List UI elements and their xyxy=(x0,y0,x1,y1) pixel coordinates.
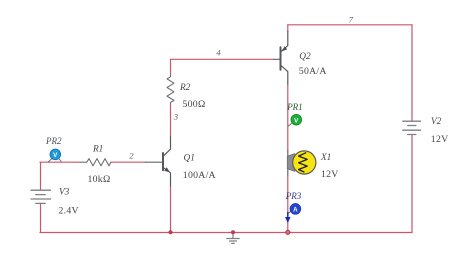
probe PR1 tail xyxy=(288,123,291,126)
transistor Q2 base pin xyxy=(274,58,280,60)
transistor Q2 (PNP) xyxy=(281,32,288,85)
wire V2 top vertical net7 xyxy=(411,25,413,121)
ground xyxy=(227,232,239,243)
probe PR2 tail xyxy=(48,159,52,163)
wire net7 to Q2 emitter pin xyxy=(287,25,289,32)
lamp X1 bulb xyxy=(293,151,316,174)
svg-text:12V: 12V xyxy=(321,169,339,180)
transistor Q1 emitter arrow xyxy=(164,167,170,172)
wire bottom ground rail xyxy=(40,232,412,234)
battery V2 xyxy=(403,121,421,134)
svg-text:R1: R1 xyxy=(92,145,103,155)
transistor Q1 base pin xyxy=(146,161,163,163)
svg-text:2: 2 xyxy=(129,151,134,161)
svg-text:A: A xyxy=(293,206,298,213)
svg-text:4: 4 xyxy=(216,48,221,58)
svg-text:X1: X1 xyxy=(320,153,331,163)
lamp X1 socket xyxy=(287,154,295,172)
svg-text:PR3: PR3 xyxy=(285,191,302,201)
resistor R2 xyxy=(167,75,174,105)
junction lamp / rail xyxy=(286,230,290,234)
svg-text:V2: V2 xyxy=(431,117,442,127)
svg-text:100A/A: 100A/A xyxy=(183,170,216,181)
svg-text:Q2: Q2 xyxy=(299,52,311,62)
svg-text:Q1: Q1 xyxy=(184,153,195,163)
wire V3 bottom to ground rail xyxy=(40,203,42,232)
probe PR3 circle xyxy=(290,204,301,215)
wire net1 left vertical V3 top xyxy=(40,162,42,190)
svg-text:PR1: PR1 xyxy=(286,102,303,112)
probe PR3 current arrow xyxy=(287,213,289,218)
lamp X1 bottom pin xyxy=(287,169,289,176)
wire net4 R2 top to Q2 base xyxy=(171,59,274,75)
svg-text:V3: V3 xyxy=(59,188,70,198)
junction Q1 emitter / rail xyxy=(169,230,173,234)
wire net1 horizontal to R1 xyxy=(40,161,80,163)
probe PR1 circle xyxy=(291,114,302,125)
svg-text:7: 7 xyxy=(349,14,354,24)
probe PR2 circle xyxy=(50,149,61,160)
wire net7 top rail xyxy=(288,24,412,26)
wire Q2 collector to lamp X1 xyxy=(287,84,289,151)
wire lamp X1 to ground rail xyxy=(287,175,289,233)
svg-text:PR2: PR2 xyxy=(45,136,62,146)
svg-text:R2: R2 xyxy=(179,83,191,93)
wire V2 bottom vertical xyxy=(411,135,413,233)
transistor Q2 emitter arrow (points to bar) xyxy=(282,46,287,51)
wire Q1 emitter to ground rail xyxy=(170,186,172,232)
battery V3 xyxy=(31,190,51,203)
junction ground / rail xyxy=(231,230,235,234)
transistor Q1 xyxy=(163,136,171,186)
svg-text:12V: 12V xyxy=(431,134,449,145)
svg-text:3: 3 xyxy=(173,111,179,121)
lamp X1 filament xyxy=(299,153,308,172)
lamp X1 top pin xyxy=(287,151,289,157)
probe PR3 tail xyxy=(288,211,291,214)
svg-text:500Ω: 500Ω xyxy=(183,99,206,110)
svg-text:2.4V: 2.4V xyxy=(59,206,79,217)
svg-text:10kΩ: 10kΩ xyxy=(88,174,111,185)
resistor R1 xyxy=(80,159,111,166)
wire net3 R2 bottom to Q1 collector xyxy=(170,105,172,137)
wire net2 R1 to Q1 base xyxy=(111,161,146,163)
svg-text:50A/A: 50A/A xyxy=(299,66,327,77)
